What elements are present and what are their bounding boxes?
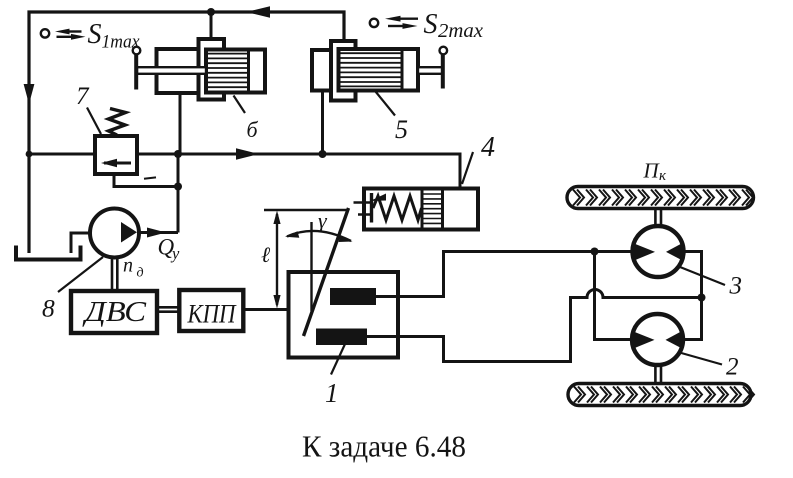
svg-text:2max: 2max [438, 21, 483, 42]
svg-text:д: д [137, 266, 144, 281]
svg-text:γ: γ [318, 208, 328, 233]
svg-text:к: к [659, 168, 667, 184]
svg-text:3: 3 [729, 273, 743, 300]
svg-text:у: у [170, 244, 180, 263]
svg-text:8: 8 [42, 294, 55, 323]
svg-text:S: S [424, 9, 438, 40]
svg-text:4: 4 [481, 132, 495, 163]
svg-text:п: п [123, 255, 133, 277]
svg-text:ДВС: ДВС [82, 296, 147, 328]
svg-text:5: 5 [395, 115, 408, 144]
svg-text:К задаче 6.48: К задаче 6.48 [302, 429, 466, 464]
svg-text:1max: 1max [102, 32, 141, 53]
svg-text:S: S [88, 19, 102, 50]
svg-text:КПП: КПП [187, 300, 238, 329]
svg-text:ℓ: ℓ [261, 242, 271, 267]
svg-text:2: 2 [726, 354, 739, 381]
svg-text:б: б [247, 117, 259, 142]
svg-text:П: П [643, 159, 661, 183]
svg-text:1: 1 [325, 378, 339, 408]
svg-text:7: 7 [76, 83, 90, 110]
